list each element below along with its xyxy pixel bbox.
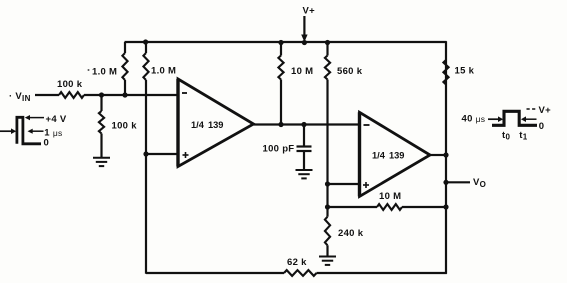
svg-text:1.0 M: 1.0 M <box>151 66 176 77</box>
svg-text:+4 V: +4 V <box>46 114 67 125</box>
ground under 100 pF <box>296 169 313 171</box>
node junction 1.0M right on rail <box>143 39 148 44</box>
resistor 62k bottom feedback <box>284 270 317 276</box>
wire comp1 output to comp2 -input <box>254 123 360 125</box>
svg-text:240 k: 240 k <box>338 228 364 239</box>
label V+ dashed <box>527 108 538 110</box>
op-amp U2 comparator 1/4 139 <box>358 112 361 196</box>
ground under input 100k <box>93 157 110 159</box>
input pulse waveform symbol <box>0 130 11 132</box>
svg-text:t0: t0 <box>502 130 510 142</box>
svg-text:100 pF: 100 pF <box>263 144 295 155</box>
svg-text:1.0 M: 1.0 M <box>92 67 117 78</box>
node junction 10M fb/240k <box>325 204 330 209</box>
op-amp U1 comparator 1/4 139 <box>176 79 179 167</box>
svg-text:560 k: 560 k <box>337 66 363 77</box>
pin + input comp1 <box>183 154 189 156</box>
svg-text:10 M: 10 M <box>291 66 313 77</box>
svg-text:0: 0 <box>539 121 545 132</box>
node junction 10M/comp1 output <box>278 122 283 127</box>
resistor 100k input series <box>59 92 84 98</box>
resistor 240k to ground <box>326 207 328 217</box>
node junction 560k/top rail <box>325 40 330 45</box>
wire +input comp1 <box>146 153 178 155</box>
node junction VIN/100k-gnd <box>99 92 104 97</box>
pin + input comp2 <box>363 184 369 186</box>
wire bottom rail left segment <box>146 272 284 274</box>
svg-text:t1: t1 <box>519 130 527 142</box>
label 1us with arrow <box>28 129 33 134</box>
svg-text:10 M: 10 M <box>379 191 401 202</box>
wire top rail <box>125 41 447 43</box>
node V+ supply arrow <box>303 16 305 36</box>
svg-text:100 k: 100 k <box>57 79 83 90</box>
svg-text:0: 0 <box>44 138 50 149</box>
resistor 100k to ground <box>100 95 102 111</box>
node junction +input/feedback <box>143 151 148 156</box>
node junction 1.0M left <box>122 92 127 97</box>
pin - input comp1 <box>182 92 187 94</box>
node junction 560k/+input comp2 <box>325 181 330 186</box>
wire left feedback vertical +input down to bottom rail <box>145 154 147 274</box>
wire right vertical bus <box>445 41 447 274</box>
svg-text:15 k: 15 k <box>455 66 475 77</box>
pin - input comp2 <box>364 124 370 126</box>
node junction comp2 output/right bus <box>443 152 448 157</box>
svg-text:1 μs: 1 μs <box>44 127 62 138</box>
node junction cap/comp1 output <box>301 122 306 127</box>
resistor 10M pull-up <box>280 42 282 56</box>
ground under 240k <box>319 256 336 258</box>
node junction 10M fb/right bus <box>443 204 448 209</box>
resistor 10M feedback <box>328 206 378 208</box>
arrow at t1 <box>521 116 526 122</box>
wire +input comp2 <box>328 183 360 185</box>
wire resistor to -input node <box>84 94 178 96</box>
svg-text:40 μs: 40 μs <box>462 114 486 125</box>
resistor 1.0M left (V+ to -input) <box>124 42 126 53</box>
svg-text:62 k: 62 k <box>287 257 307 268</box>
wire VIN to resistor <box>35 94 59 96</box>
resistor 15k pull-up <box>443 60 448 85</box>
resistor 1.0M right (V+ to +input) <box>143 53 148 80</box>
wire 560k down to +input comp2 and 240k <box>326 80 328 208</box>
wire comp2 output <box>430 154 446 156</box>
wire bottom rail right segment <box>317 272 447 274</box>
svg-text:100 k: 100 k <box>112 121 138 132</box>
capacitor C1 100 pF <box>303 125 305 147</box>
node junction 10M/top rail <box>278 40 283 45</box>
wire left feedback vertical (x=146) rail to +input <box>145 41 147 53</box>
svg-text:1/4139: 1/4139 <box>191 120 223 130</box>
svg-text:V+: V+ <box>303 6 316 17</box>
node VO output <box>443 180 448 185</box>
label +4V with arrow <box>25 115 30 120</box>
svg-text:1/4139: 1/4139 <box>372 151 404 161</box>
svg-text:V+: V+ <box>539 105 552 116</box>
resistor 560k pull-up <box>326 42 328 56</box>
